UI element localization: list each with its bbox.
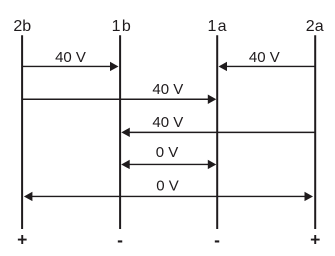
svg-text:-: -	[117, 230, 123, 250]
voltage double arrow 1b to 1a, 0 V	[121, 144, 216, 169]
voltage double arrow 2b to 2a, 0 V	[24, 178, 313, 202]
svg-text:1a: 1a	[207, 18, 226, 35]
svg-text:40 V: 40 V	[249, 49, 280, 66]
voltage arrow 2a to 1a, 40 V	[219, 49, 316, 71]
svg-text:+: +	[310, 229, 320, 249]
svg-text:40 V: 40 V	[55, 49, 86, 66]
voltage arrow 2a to 1b, 40 V	[121, 114, 315, 137]
svg-text:+: +	[17, 229, 27, 249]
svg-text:40 V: 40 V	[152, 81, 183, 98]
svg-text:2a: 2a	[306, 18, 324, 35]
svg-text:-: -	[214, 230, 220, 250]
terminal line 1a	[216, 35, 218, 229]
svg-text:0 V: 0 V	[156, 144, 179, 161]
svg-text:1b: 1b	[112, 18, 131, 35]
svg-text:2b: 2b	[13, 18, 31, 35]
svg-text:40 V: 40 V	[152, 114, 183, 131]
svg-text:0 V: 0 V	[156, 178, 179, 195]
voltage arrow 2b to 1b, 40 V	[22, 49, 118, 71]
terminal line 2b	[21, 35, 23, 229]
terminal line 1b	[119, 35, 121, 229]
terminal line 2a	[314, 35, 316, 229]
voltage arrow 2b to 1a, 40 V	[22, 81, 216, 104]
